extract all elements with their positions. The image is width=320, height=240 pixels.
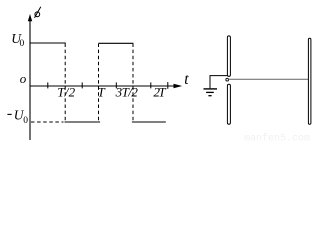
svg-text:manfen5.com: manfen5.com [244,133,310,142]
svg-text:3T/2: 3T/2 [115,85,139,100]
svg-text:o: o [20,71,27,86]
svg-text:t: t [184,71,189,88]
svg-text:T: T [98,85,106,100]
svg-text:T/2: T/2 [57,85,75,100]
svg-text:0: 0 [23,116,28,126]
svg-text:2T: 2T [153,85,166,100]
svg-text:0: 0 [20,39,25,49]
